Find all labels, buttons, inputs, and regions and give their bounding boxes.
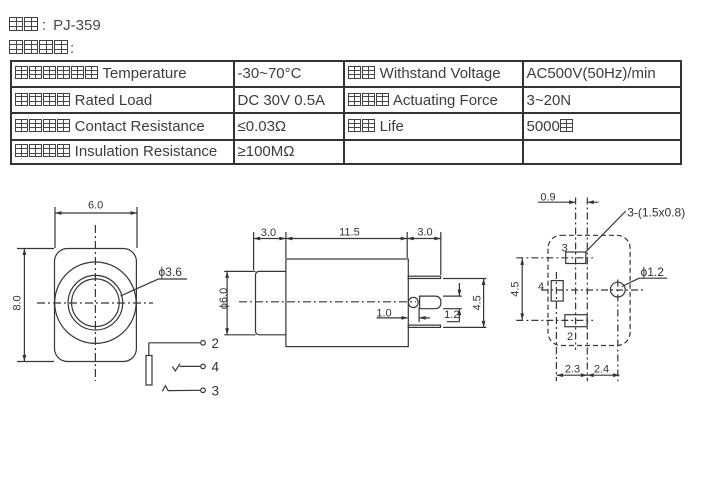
svg-text:3.0: 3.0 (261, 227, 276, 239)
front view vertical centerline (94, 225, 96, 381)
svg-text:2: 2 (212, 336, 220, 351)
side view phi 6.0 dimension (218, 271, 256, 334)
bottom view centerline B (586, 198, 588, 382)
side view: 3.0 / 11.5 / 3.0 dimensions (254, 227, 441, 276)
svg-text:3: 3 (212, 384, 220, 399)
schematic pin 3 (162, 384, 219, 399)
schematic pin 2 (149, 336, 219, 351)
side view body (286, 259, 408, 347)
bottom view pad 2 (565, 315, 587, 343)
front view: 6.0 width dimension (55, 200, 137, 249)
title 型号：PJ-359 (9, 17, 101, 34)
side view top pin plate (408, 276, 440, 278)
svg-text:4.5: 4.5 (472, 295, 484, 310)
svg-text:ϕ1.2: ϕ1.2 (641, 265, 665, 279)
svg-text:3.0: 3.0 (417, 227, 432, 239)
svg-text:11.5: 11.5 (339, 227, 360, 239)
spec table (10, 60, 683, 166)
subtitle 技术指标： (9, 40, 74, 57)
bottom view pad4 vertical centerline (555, 272, 557, 381)
side view barrel (256, 271, 286, 334)
schematic sleeve contact (146, 343, 152, 385)
bottom view pad 4 (538, 281, 563, 302)
front view body outline (55, 249, 137, 362)
front view outer circle (55, 262, 136, 343)
side view bottom pin plate (408, 325, 440, 327)
bottom view pad3 centerline (516, 257, 593, 259)
svg-text:3-(1.5x0.8): 3-(1.5x0.8) (627, 206, 685, 220)
front view hole ring (68, 275, 123, 330)
side view 4.5 dimension (443, 279, 486, 328)
phi 1.2 label and leader (622, 265, 667, 287)
bottom view 2.3 / 2.4 dimension (556, 364, 619, 378)
front view: 8.0 height dimension (12, 249, 55, 362)
bottom view 0.9 dimension (538, 192, 599, 204)
bottom view centerline A (575, 198, 577, 351)
side view tip pin (420, 296, 441, 309)
svg-text:4: 4 (538, 281, 544, 293)
schematic pin 4 (172, 360, 219, 375)
side view tip pin neck (408, 297, 418, 307)
side view 1.2 dimension (443, 283, 462, 322)
svg-text:ϕ3.6: ϕ3.6 (159, 265, 183, 279)
svg-text:1.2: 1.2 (444, 309, 459, 321)
svg-text:3: 3 (562, 242, 568, 254)
front view horizontal centerline (37, 302, 153, 304)
bottom view 4.5 dimension (510, 258, 525, 320)
bottom view phi 1.2 hole (610, 282, 625, 297)
svg-text:8.0: 8.0 (12, 295, 24, 310)
3-(1.5x0.8) label and leader (586, 206, 685, 252)
side view 1.0 dimension (376, 308, 430, 323)
svg-text:4: 4 (212, 360, 220, 375)
bottom view outline dashed (548, 235, 630, 345)
side view centerline (239, 301, 416, 303)
bottom view pad4 and hole centerline (541, 289, 644, 291)
bottom view hole vertical centerline (617, 280, 619, 382)
svg-text:2.4: 2.4 (594, 364, 609, 376)
svg-text:4.5: 4.5 (510, 281, 522, 296)
svg-text:6.0: 6.0 (88, 200, 103, 212)
svg-text:2: 2 (567, 331, 573, 343)
bottom view pad2 centerline (516, 319, 593, 321)
bottom view pad 3 (562, 242, 586, 263)
svg-text:ϕ6.0: ϕ6.0 (218, 288, 230, 309)
phi 3.6 label and leader (121, 265, 188, 296)
svg-text:2.3: 2.3 (565, 364, 580, 376)
